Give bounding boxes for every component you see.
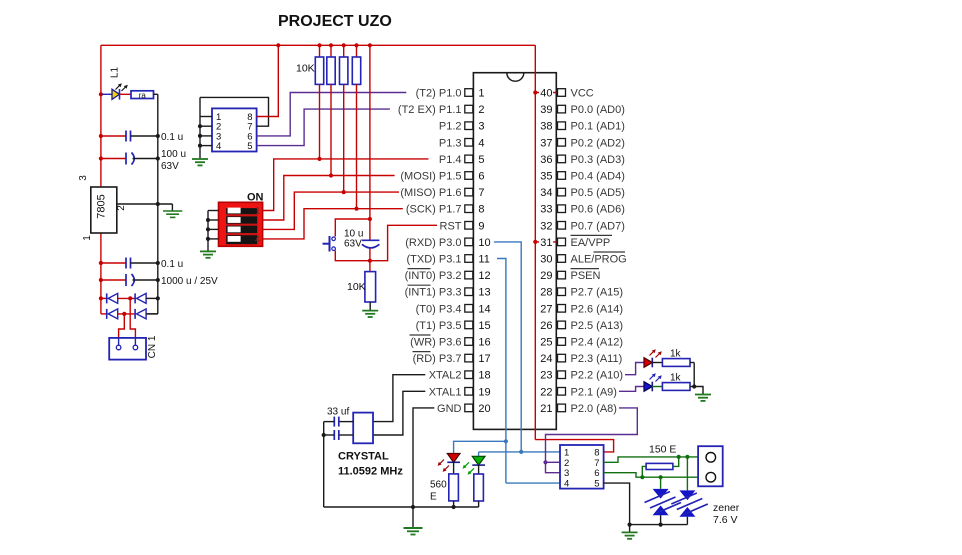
wire P2.1 to LED D8 bbox=[619, 387, 644, 392]
svg-text:(T2 EX) P1.1: (T2 EX) P1.1 bbox=[398, 104, 462, 116]
IC U1 pin 9 bbox=[440, 220, 485, 232]
wire DIP pin4 / RN4 to P1.7 bbox=[263, 209, 403, 239]
svg-text:PSEN: PSEN bbox=[571, 270, 601, 282]
IC U1 pin 23 bbox=[540, 370, 623, 382]
svg-text:(T1) P3.5: (T1) P3.5 bbox=[416, 320, 462, 332]
svg-text:10K: 10K bbox=[347, 281, 366, 293]
svg-text:P0.3 (AD3): P0.3 (AD3) bbox=[571, 154, 625, 166]
svg-text:4: 4 bbox=[255, 235, 261, 246]
svg-text:32: 32 bbox=[540, 220, 552, 232]
wire U3 pin7 to terminal bbox=[604, 457, 706, 462]
svg-text:11.0592 MHz: 11.0592 MHz bbox=[338, 466, 403, 478]
capacitor C7 33uf bbox=[322, 430, 354, 440]
IC U1 pin 6 bbox=[400, 171, 484, 183]
capacitor C5 10u 63V bbox=[344, 219, 379, 261]
wire RST bbox=[368, 225, 437, 263]
svg-text:XTAL2: XTAL2 bbox=[429, 370, 462, 382]
svg-text:7.6 V: 7.6 V bbox=[713, 514, 738, 526]
svg-text:5: 5 bbox=[247, 141, 252, 152]
IC U1 pin 12 bbox=[405, 270, 491, 282]
svg-text:P2.5 (A13): P2.5 (A13) bbox=[571, 320, 624, 332]
zener Z2 bbox=[671, 455, 708, 525]
svg-text:11: 11 bbox=[478, 254, 489, 266]
resistor R2 10K bbox=[347, 261, 376, 302]
svg-text:L1: L1 bbox=[110, 67, 121, 79]
svg-text:10: 10 bbox=[478, 237, 490, 249]
IC U1 pin 13 bbox=[405, 287, 491, 299]
wire GND pin to rail bbox=[411, 408, 434, 509]
IC U1 pin 38 bbox=[540, 121, 625, 133]
wire TXD branch to LED D5 bbox=[454, 439, 508, 453]
wire EA/VPP VCC to U3 pin8 bbox=[535, 440, 613, 452]
wire bridge AC to CN1 left bbox=[119, 314, 125, 339]
svg-text:37: 37 bbox=[540, 137, 552, 149]
wire DIP pin1 / RN1 to P1.4 bbox=[263, 159, 429, 211]
capacitor C2 100u 63V bbox=[99, 149, 186, 172]
wire U3 pin5 to ground bbox=[604, 483, 688, 527]
push button SW2 reset bbox=[323, 219, 370, 261]
wire U2 pin7 loop to ground rail bbox=[200, 97, 269, 126]
svg-text:(MOSI) P1.5: (MOSI) P1.5 bbox=[400, 171, 461, 183]
overline INT0 bbox=[408, 268, 431, 270]
wire bridge AC to CN1 right bbox=[130, 298, 135, 338]
capacitor C6 33uf bbox=[324, 417, 354, 427]
wire P2.0 to U3 pins 2,3 bbox=[543, 408, 637, 473]
diode D3 bridge bottom-left bbox=[107, 309, 118, 319]
IC U1 pin 1 bbox=[416, 88, 553, 100]
svg-text:39: 39 bbox=[540, 104, 552, 116]
svg-text:14: 14 bbox=[478, 303, 490, 315]
IC U1 pin 5 bbox=[439, 154, 485, 166]
svg-text:1000 u / 25V: 1000 u / 25V bbox=[161, 276, 218, 287]
svg-text:24: 24 bbox=[540, 353, 552, 365]
svg-text:5: 5 bbox=[478, 154, 484, 166]
IC U1 pin 37 bbox=[540, 137, 625, 149]
IC U1 pin 39 bbox=[540, 104, 625, 116]
svg-text:27: 27 bbox=[540, 303, 552, 315]
svg-text:P2.1 (A9): P2.1 (A9) bbox=[571, 386, 617, 398]
svg-text:6: 6 bbox=[478, 171, 484, 183]
chip U2 8-pin bbox=[212, 108, 257, 152]
svg-text:33 uf: 33 uf bbox=[327, 407, 349, 418]
svg-text:ALE/PROG: ALE/PROG bbox=[571, 254, 627, 266]
DIP switch SW1 bbox=[219, 192, 264, 247]
svg-text:P2.7 (A15): P2.7 (A15) bbox=[571, 287, 624, 299]
svg-text:23: 23 bbox=[540, 370, 552, 382]
resistor R7 1k bbox=[652, 383, 696, 391]
svg-text:3: 3 bbox=[78, 175, 89, 181]
IC U1 pin 22 bbox=[540, 386, 617, 398]
wire XTAL1 to crystal bbox=[373, 391, 425, 435]
svg-text:100 u: 100 u bbox=[161, 149, 186, 160]
wire 7805 pin2 to ground bbox=[117, 202, 173, 206]
overline RD bbox=[413, 351, 431, 353]
svg-text:4: 4 bbox=[216, 141, 221, 152]
svg-text:19: 19 bbox=[478, 386, 490, 398]
svg-text:34: 34 bbox=[540, 187, 552, 199]
svg-text:XTAL1: XTAL1 bbox=[429, 386, 462, 398]
ground right LEDs bbox=[694, 387, 711, 401]
IC U1 pin 11 bbox=[406, 254, 489, 266]
IC U1 pin 34 bbox=[540, 187, 625, 199]
IC U1 pin 2 bbox=[398, 104, 485, 116]
svg-text:(MISO) P1.6: (MISO) P1.6 bbox=[400, 187, 461, 199]
svg-text:17: 17 bbox=[478, 353, 490, 365]
IC U1 pin 3 bbox=[439, 121, 485, 133]
wire DIP pin2 / RN2 to P1.5 bbox=[263, 176, 395, 221]
svg-text:5: 5 bbox=[594, 479, 599, 490]
wire U3 pin6 lower green bbox=[604, 473, 706, 478]
svg-text:38: 38 bbox=[540, 121, 552, 133]
IC U1 pin 8 bbox=[406, 204, 485, 216]
svg-text:28: 28 bbox=[540, 287, 552, 299]
svg-text:EA/VPP: EA/VPP bbox=[571, 237, 611, 249]
svg-text:560: 560 bbox=[430, 480, 447, 491]
wire VCC to reset circuit bbox=[368, 43, 372, 221]
svg-text:P0.5 (AD5): P0.5 (AD5) bbox=[571, 187, 625, 199]
wire P2.2 to LED D7 bbox=[625, 363, 644, 375]
svg-text:10K: 10K bbox=[296, 63, 315, 75]
svg-text:12: 12 bbox=[478, 270, 490, 282]
svg-text:(INT1) P3.3: (INT1) P3.3 bbox=[405, 287, 462, 299]
svg-text:1: 1 bbox=[82, 235, 93, 241]
svg-text:33: 33 bbox=[540, 204, 552, 216]
IC U1 pin 27 bbox=[540, 303, 623, 315]
wire TXD to U3 pin4 bbox=[506, 482, 560, 484]
terminal block J1 bbox=[698, 446, 723, 486]
svg-text:CN 1: CN 1 bbox=[147, 335, 158, 358]
svg-text:1k: 1k bbox=[670, 349, 682, 360]
capacitor C3 0.1u bbox=[99, 258, 183, 271]
svg-text:1k: 1k bbox=[670, 373, 682, 384]
diode D1 bridge top-left bbox=[99, 293, 118, 303]
svg-text:21: 21 bbox=[540, 403, 552, 415]
resistor RN3 10K bbox=[340, 43, 348, 194]
IC U1 pin 32 bbox=[540, 220, 625, 232]
svg-text:30: 30 bbox=[540, 254, 552, 266]
svg-text:25: 25 bbox=[540, 337, 552, 349]
resistor ra bbox=[120, 91, 158, 100]
svg-text:P0.0 (AD0): P0.0 (AD0) bbox=[571, 104, 625, 116]
svg-text:P2.4 (A12): P2.4 (A12) bbox=[571, 337, 624, 349]
svg-text:GND: GND bbox=[437, 403, 462, 415]
overline WR bbox=[410, 334, 431, 336]
svg-text:(WR) P3.6: (WR) P3.6 bbox=[410, 337, 461, 349]
svg-text:9: 9 bbox=[478, 220, 484, 232]
LED L1 bbox=[99, 83, 128, 99]
svg-text:16: 16 bbox=[478, 337, 490, 349]
svg-text:63V: 63V bbox=[344, 239, 362, 250]
svg-text:(T0) P3.4: (T0) P3.4 bbox=[416, 303, 462, 315]
IC U1 pin 31 bbox=[539, 237, 610, 249]
IC U1 pin 21 bbox=[540, 403, 617, 415]
svg-text:22: 22 bbox=[540, 386, 552, 398]
overline PSEN bbox=[571, 268, 600, 270]
ground below R2 bbox=[362, 302, 378, 317]
wire crystal caps to ground rail bbox=[323, 422, 325, 507]
svg-text:1: 1 bbox=[564, 447, 569, 458]
svg-text:RST: RST bbox=[440, 220, 462, 232]
svg-text:6: 6 bbox=[594, 468, 599, 479]
IC U1 pin 17 bbox=[413, 353, 491, 365]
crystal X1 bbox=[353, 413, 373, 444]
svg-text:20: 20 bbox=[478, 403, 490, 415]
wire RXD branch to LED D6 bbox=[479, 450, 524, 457]
wire DIP left pins to ground bbox=[206, 211, 219, 252]
svg-text:P2.2 (A10): P2.2 (A10) bbox=[571, 370, 624, 382]
overline INT1 bbox=[408, 284, 431, 286]
wire VCC into IC to EA/VPP bbox=[533, 45, 556, 439]
svg-text:P0.7 (AD7): P0.7 (AD7) bbox=[571, 220, 625, 232]
wire RXD P3.0 internal bbox=[494, 242, 521, 452]
capacitor C4 1000u 25V bbox=[99, 274, 218, 287]
svg-text:0.1 u: 0.1 u bbox=[161, 259, 183, 270]
resistor R5 150E bbox=[640, 455, 681, 480]
svg-text:4: 4 bbox=[478, 137, 484, 149]
IC U1 pin 14 bbox=[416, 303, 491, 315]
IC U1 pin 40 bbox=[539, 88, 594, 100]
svg-text:29: 29 bbox=[540, 270, 552, 282]
svg-text:4: 4 bbox=[564, 479, 569, 490]
resistor RN2 10K bbox=[327, 43, 335, 177]
wire U2 pin6 to P1.0 bbox=[257, 93, 407, 136]
svg-text:PROJECT UZO: PROJECT UZO bbox=[278, 13, 392, 30]
svg-text:P1.4: P1.4 bbox=[439, 154, 462, 166]
svg-text:15: 15 bbox=[478, 320, 490, 332]
diode D2 bridge top-right bbox=[118, 293, 160, 303]
IC U1 pin 35 bbox=[540, 171, 625, 183]
chip U3 8-pin bbox=[560, 445, 604, 490]
svg-text:3: 3 bbox=[478, 121, 484, 133]
svg-text:7: 7 bbox=[478, 187, 484, 199]
svg-text:35: 35 bbox=[540, 171, 552, 183]
wire bottom ground rail bbox=[324, 506, 479, 508]
wire left VCC vertical rail bbox=[100, 45, 102, 187]
svg-text:P0.2 (AD2): P0.2 (AD2) bbox=[571, 137, 625, 149]
IC U1 pin 25 bbox=[540, 337, 623, 349]
wire VCC top rail bbox=[101, 44, 535, 46]
LED D7 red bbox=[644, 349, 662, 367]
svg-text:VCC: VCC bbox=[571, 88, 594, 100]
ground near 7805 bbox=[163, 204, 182, 217]
IC U1 pin 29 bbox=[540, 270, 600, 282]
svg-text:E: E bbox=[430, 492, 437, 503]
svg-text:7805: 7805 bbox=[96, 194, 108, 218]
svg-text:ON: ON bbox=[247, 192, 264, 204]
svg-text:7: 7 bbox=[594, 458, 599, 469]
svg-text:P2.6 (A14): P2.6 (A14) bbox=[571, 303, 624, 315]
svg-text:(RD) P3.7: (RD) P3.7 bbox=[413, 353, 462, 365]
IC U1 pin 26 bbox=[540, 320, 623, 332]
resistor R3 560E bbox=[449, 462, 459, 509]
regulator U4 7805 bbox=[78, 175, 127, 241]
svg-text:36: 36 bbox=[540, 154, 552, 166]
IC U1 pin 33 bbox=[540, 204, 625, 216]
svg-text:CRYSTAL: CRYSTAL bbox=[338, 451, 389, 463]
ground below DIP bbox=[200, 251, 216, 257]
svg-text:2: 2 bbox=[116, 205, 127, 211]
wire U2 pin5 to P1.1 bbox=[257, 109, 390, 146]
svg-text:150 E: 150 E bbox=[649, 444, 676, 456]
overline EA/VPP bbox=[571, 234, 613, 236]
wire XTAL2 to crystal bbox=[373, 375, 425, 422]
ground below rail bbox=[404, 507, 423, 535]
overline PROG bbox=[594, 251, 626, 253]
svg-text:2: 2 bbox=[478, 104, 484, 116]
svg-text:2: 2 bbox=[564, 458, 569, 469]
svg-text:63V: 63V bbox=[161, 161, 179, 172]
svg-text:31: 31 bbox=[540, 237, 552, 249]
wire U2 pin8 to VCC rail bbox=[257, 43, 281, 116]
zener Z1 bbox=[645, 475, 682, 527]
svg-text:P0.1 (AD1): P0.1 (AD1) bbox=[571, 121, 625, 133]
svg-text:3: 3 bbox=[564, 468, 569, 479]
IC U1 pin 28 bbox=[540, 287, 623, 299]
svg-text:(INT0) P3.2: (INT0) P3.2 bbox=[405, 270, 462, 282]
wire TXD P3.1 internal bbox=[497, 259, 506, 484]
capacitor C1 0.1u bbox=[99, 131, 183, 144]
svg-text:ra: ra bbox=[139, 91, 147, 100]
IC U1 pin 10 bbox=[405, 237, 553, 249]
svg-text:13: 13 bbox=[478, 287, 490, 299]
svg-text:P0.6 (AD6): P0.6 (AD6) bbox=[571, 204, 625, 216]
ground below U3 pin5 bbox=[622, 525, 638, 539]
svg-text:P2.0 (A8): P2.0 (A8) bbox=[571, 403, 617, 415]
svg-text:P1.3: P1.3 bbox=[439, 137, 462, 149]
svg-text:P2.3 (A11): P2.3 (A11) bbox=[571, 353, 623, 365]
IC U1 pin 15 bbox=[416, 320, 491, 332]
IC U1 pin 36 bbox=[540, 154, 625, 166]
connector CN1 bbox=[109, 338, 146, 360]
svg-text:zener: zener bbox=[713, 502, 740, 514]
IC U1 pin 20 bbox=[437, 403, 491, 415]
svg-text:P1.2: P1.2 bbox=[439, 121, 462, 133]
svg-text:(T2) P1.0: (T2) P1.0 bbox=[416, 88, 462, 100]
svg-text:(SCK) P1.7: (SCK) P1.7 bbox=[406, 204, 462, 216]
svg-text:8: 8 bbox=[478, 204, 484, 216]
IC U1 pin 18 bbox=[429, 370, 491, 382]
wire U2 left pins to ground rail bbox=[198, 97, 212, 159]
IC U1 pin 24 bbox=[540, 353, 622, 365]
LED D6 green bbox=[463, 456, 485, 474]
IC U1 AT89 main bbox=[473, 73, 556, 430]
resistor R4 560E bbox=[474, 465, 484, 507]
LED D8 blue bbox=[644, 373, 662, 391]
IC U1 pin 30 bbox=[540, 254, 627, 266]
wire black return rail bbox=[157, 94, 159, 314]
svg-text:1: 1 bbox=[478, 88, 484, 100]
resistor R6 1k bbox=[652, 359, 694, 387]
svg-text:26: 26 bbox=[540, 320, 552, 332]
svg-text:40: 40 bbox=[540, 88, 552, 100]
wire 7805 input lower rail bbox=[100, 233, 102, 314]
svg-text:8: 8 bbox=[594, 447, 599, 458]
IC U1 pin 4 bbox=[439, 137, 485, 149]
IC U1 pin 16 bbox=[410, 337, 490, 349]
svg-text:(TXD) P3.1: (TXD) P3.1 bbox=[406, 254, 461, 266]
LED D5 red bbox=[438, 454, 460, 472]
resistor RN1 10K bbox=[315, 43, 323, 161]
IC U1 pin 7 bbox=[400, 187, 484, 199]
IC U1 pin 19 bbox=[429, 386, 491, 398]
svg-text:P0.4 (AD4): P0.4 (AD4) bbox=[571, 171, 625, 183]
ground below U2 bbox=[192, 159, 208, 165]
resistor RN4 10K bbox=[352, 43, 360, 211]
svg-text:0.1 u: 0.1 u bbox=[161, 132, 183, 143]
diode D4 bridge bottom-right bbox=[118, 309, 158, 319]
svg-text:1: 1 bbox=[255, 206, 261, 217]
svg-text:18: 18 bbox=[478, 370, 490, 382]
wire RXD to U3 pin1 bbox=[521, 451, 560, 453]
svg-text:(RXD) P3.0: (RXD) P3.0 bbox=[405, 237, 461, 249]
wire DIP pin3 / RN3 to P1.6 bbox=[263, 192, 399, 229]
